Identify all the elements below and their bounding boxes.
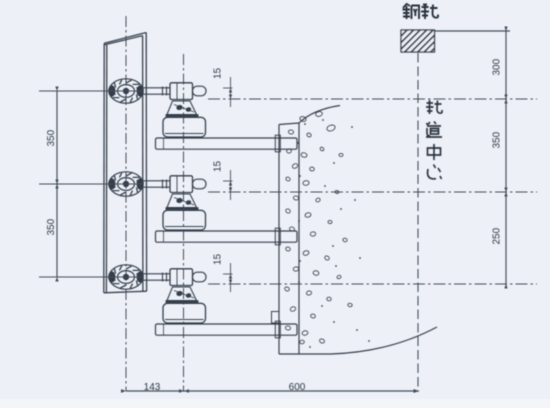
roller wheel 2 on rail [109,172,144,196]
svg-text:350: 350 [46,218,57,235]
clamp block 1 [170,83,193,100]
bolt tip 2 [193,179,207,189]
svg-text:350: 350 [46,129,57,146]
roller wheel 3 on rail [109,265,144,289]
bolt tip 3 [193,272,207,282]
support bar 2 [156,231,298,242]
concrete aggregate speckles [284,111,370,348]
dimension 15 for unit 3 [223,263,233,292]
extra anchor block above bar 3 [272,312,280,324]
rod collar 1 [163,87,167,96]
conductor axis line 1 (horizontal dash-dot) [208,98,537,100]
extension line from rail top [435,30,511,32]
svg-text:600: 600 [289,382,306,393]
clamp block 3 [170,269,193,286]
rod collar 3 [163,273,167,282]
insulator cap 2 [166,194,199,209]
svg-text:143: 143 [144,382,161,393]
svg-text:15: 15 [213,67,224,79]
support bar 1 [156,138,298,149]
bolt rod 2 [143,181,170,187]
roller wheel 1 on rail [109,79,144,103]
insulator cap 1 [166,101,199,116]
right dimension line (300/350/250) [505,27,507,289]
dimension 15 for unit 2 [223,170,233,200]
svg-text:250: 250 [492,227,503,244]
wall anchor plate 3 [275,321,280,338]
bolt rod 1 [143,88,170,94]
left dimension line (350/350) [56,91,58,277]
rod collar 2 [163,180,167,189]
bottom dimension line (143/600) [126,390,419,392]
conductor axis line 3 (horizontal dash-dot) [208,283,537,285]
roller extension line 1 [39,90,143,92]
svg-text:15: 15 [213,160,224,172]
roller extension line 3 [39,276,143,278]
bolt rod 3 [143,274,170,280]
svg-text:300: 300 [492,58,503,75]
insulator body 3 [163,303,206,323]
wall anchor plate 2 [275,228,280,245]
label track centre (pseudo hanzi 轨道中心 vertical) [426,100,442,179]
insulator body 1 [163,117,206,137]
insulator cap 3 [166,287,199,302]
wall top curve [299,106,340,124]
running rail cross-section (hatched box) [401,30,435,52]
rail centre line (vertical dash-dot) [125,16,127,391]
roller extension line 2 [39,183,143,185]
label steel rail (pseudo hanzi 钢轨) [403,4,439,20]
rail channel (vertical steel channel on left) [104,33,147,293]
concrete wall face and embedded channel [279,106,437,355]
clamp block 2 [170,176,193,193]
track centre line (vertical dashed) [417,53,419,391]
insulator body 2 [163,210,206,230]
wall bottom curve [331,327,437,354]
svg-text:350: 350 [492,131,503,148]
conductor axis line 2 (horizontal dash-dot) [208,191,537,193]
support bar 3 [156,324,298,335]
bolt tip 1 [193,86,207,96]
dimension 15 for unit 1 [223,77,233,107]
insulator axis centre line (vertical dash-dot) [183,54,185,391]
wall anchor plate 1 [275,135,280,152]
svg-text:15: 15 [213,253,224,265]
